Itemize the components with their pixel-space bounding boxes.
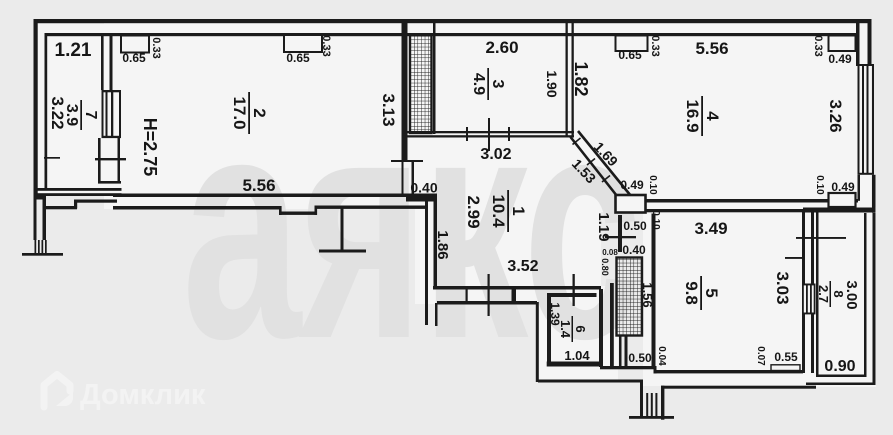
svg-text:9.8: 9.8 [682, 281, 701, 305]
svg-text:1.90: 1.90 [544, 70, 560, 97]
pilaster room4 top-left [616, 36, 648, 52]
room 1 label [489, 190, 528, 232]
door lines left of room5 [618, 215, 622, 252]
shaft2 legs [619, 336, 622, 367]
dim dash room5 right [785, 257, 803, 259]
svg-text:2.99: 2.99 [464, 195, 483, 228]
svg-text:0.33: 0.33 [320, 35, 332, 56]
svg-text:0.55: 0.55 [774, 350, 798, 364]
room 4 label [683, 96, 722, 136]
svg-text:0.08: 0.08 [602, 248, 618, 257]
room 2 right wall [402, 21, 408, 162]
room 4/5 wall lines [645, 199, 858, 203]
corner block room1 top-left [406, 194, 437, 202]
column at diagonal end [616, 195, 646, 213]
room number fractions (rotated) [63, 68, 846, 342]
room interior fills [38, 23, 876, 387]
svg-text:0.50: 0.50 [623, 219, 647, 233]
rotated labels [48, 35, 860, 366]
window room 4 right [858, 64, 875, 66]
svg-text:0.90: 0.90 [824, 358, 855, 375]
room 4 fill [565, 23, 871, 212]
stairs bottom-center [646, 393, 648, 417]
svg-text:1.82: 1.82 [571, 61, 591, 96]
svg-text:3.9: 3.9 [63, 104, 80, 126]
room 6 walls [547, 293, 551, 363]
svg-text:1.86: 1.86 [434, 230, 451, 259]
hallway double wall [433, 286, 601, 290]
room 3 label [470, 68, 506, 100]
svg-text:1: 1 [509, 206, 528, 215]
svg-text:0.33: 0.33 [649, 35, 661, 56]
svg-text:3.52: 3.52 [507, 258, 538, 275]
room 3 bottom wall lines [403, 131, 574, 133]
outer step right of stairs [46, 206, 77, 209]
svg-text:0.50: 0.50 [628, 351, 652, 365]
door opening room2 right [402, 162, 404, 194]
svg-text:0.10: 0.10 [647, 175, 658, 195]
svg-text:0.65: 0.65 [122, 51, 146, 65]
svg-text:7: 7 [82, 111, 99, 120]
svg-text:3.26: 3.26 [826, 99, 845, 132]
svg-text:10.4: 10.4 [489, 194, 508, 228]
room 8 fill [812, 207, 876, 387]
left wall step below room7 [34, 196, 47, 200]
room 4 right wall below window [858, 175, 861, 201]
vestibule left wall [536, 302, 539, 382]
room 2 bottom wall lower line [113, 206, 281, 210]
top outer wall line [34, 19, 872, 23]
room 7 bottom wall lines [34, 188, 122, 191]
svg-text:0.10: 0.10 [814, 175, 825, 195]
room 3 fill [396, 23, 575, 137]
svg-text:4.9: 4.9 [470, 73, 487, 95]
svg-text:2.60: 2.60 [485, 38, 518, 57]
horizontal labels [55, 38, 856, 375]
bottom thin line below vestibule [538, 380, 642, 383]
svg-text:Домклик: Домклик [80, 379, 206, 411]
lower line continues [315, 206, 427, 209]
room 5 left wall [652, 214, 656, 368]
balcony 8 top wall [803, 208, 876, 213]
room 2 bottom wall upper line [113, 194, 407, 198]
pilaster room2 top-mid [284, 35, 322, 52]
room 7 label [63, 100, 99, 130]
svg-text:17.0: 17.0 [230, 96, 249, 129]
balcony 8 right wall lines [864, 213, 867, 377]
svg-text:2.7: 2.7 [816, 285, 831, 303]
ventilation shaft 1 [410, 35, 432, 133]
pilaster room4 bottom-right [829, 193, 856, 207]
svg-text:0.49: 0.49 [620, 178, 644, 192]
pilaster room2 top-left [121, 36, 149, 53]
room 2 fill [104, 23, 415, 209]
room 6 label [558, 316, 588, 342]
room 5 label [682, 276, 721, 310]
pilaster room4 top-right [829, 36, 856, 52]
svg-text:0.65: 0.65 [618, 48, 642, 62]
stairs bottom-left [35, 240, 37, 254]
svg-text:2: 2 [250, 108, 269, 117]
svg-text:1.21: 1.21 [55, 40, 92, 61]
svg-text:5.56: 5.56 [695, 39, 728, 58]
svg-text:0.04: 0.04 [656, 346, 667, 366]
svg-text:0.10: 0.10 [650, 210, 661, 230]
left outer wall line [34, 19, 38, 196]
bulge below room 2 [279, 206, 282, 215]
svg-text:1.19: 1.19 [595, 212, 612, 241]
svg-text:3.03: 3.03 [773, 271, 792, 304]
channel walls near room 6 [599, 289, 603, 367]
svg-text:1.4: 1.4 [558, 320, 573, 339]
svg-text:3: 3 [489, 80, 506, 89]
svg-text:3.13: 3.13 [379, 93, 398, 126]
window sill notch room5 bottom [771, 365, 800, 371]
room 4 right inner line above window [856, 22, 860, 66]
svg-text:H=2.75: H=2.75 [140, 118, 160, 177]
svg-text:0.80: 0.80 [600, 258, 610, 276]
diagonal wall [571, 131, 632, 196]
balcony 8 bottom wall lines [816, 375, 866, 378]
svg-text:1.04: 1.04 [564, 348, 590, 363]
svg-text:4: 4 [703, 111, 722, 121]
step down at stairs [640, 380, 643, 418]
watermark ayaks [182, 47, 639, 405]
divider wall room7/room2 upper lines [101, 33, 104, 90]
svg-text:0.07: 0.07 [755, 346, 766, 366]
svg-text:0.33: 0.33 [150, 37, 162, 58]
house icon [44, 375, 73, 408]
niche line right of shaft1 [433, 22, 436, 134]
svg-text:8: 8 [831, 290, 846, 297]
svg-text:0.33: 0.33 [812, 35, 824, 56]
svg-text:3.49: 3.49 [694, 219, 727, 238]
balcony door tick [796, 237, 846, 239]
window room7/room2 [102, 90, 122, 92]
ventilation shaft 2 [617, 258, 643, 336]
room 7 fill [38, 24, 118, 196]
svg-text:1.56: 1.56 [640, 282, 655, 307]
svg-text:0.49: 0.49 [828, 52, 852, 66]
top inner wall line [46, 33, 856, 36]
room 3 right wall lines [566, 22, 568, 137]
T wall piece below room 2 [341, 208, 344, 250]
svg-text:0.40: 0.40 [410, 180, 437, 196]
svg-text:3.02: 3.02 [480, 146, 511, 163]
left inner wall line room7 [45, 33, 48, 190]
room7 tick left [44, 157, 60, 159]
room 5 fill [643, 202, 814, 386]
balcony 8 left inner line [816, 213, 819, 378]
room 5 bottom wall line [654, 370, 804, 373]
svg-text:16.9: 16.9 [683, 99, 702, 132]
room 5 right wall lines [802, 212, 805, 284]
svg-text:5.56: 5.56 [242, 176, 275, 195]
room 1 fill [415, 137, 601, 304]
room 8 label [816, 281, 846, 307]
svg-text:5: 5 [702, 288, 721, 297]
window room5/balcony [802, 284, 816, 286]
room 2 label [230, 92, 269, 134]
step left of room5 bottom [600, 366, 655, 369]
Domclick logo [44, 375, 206, 412]
balcony door opening room7 [98, 138, 101, 183]
room 4 right outer line above window [868, 19, 872, 66]
vestibule fill [536, 286, 618, 382]
svg-text:6: 6 [573, 325, 588, 332]
svg-text:0.65: 0.65 [286, 51, 310, 65]
svg-text:0.49: 0.49 [831, 180, 855, 194]
svg-text:0.40: 0.40 [622, 243, 646, 257]
room 1 left wall lines [425, 197, 428, 325]
pilasters [121, 35, 856, 371]
bottom outer line right section [661, 386, 816, 389]
